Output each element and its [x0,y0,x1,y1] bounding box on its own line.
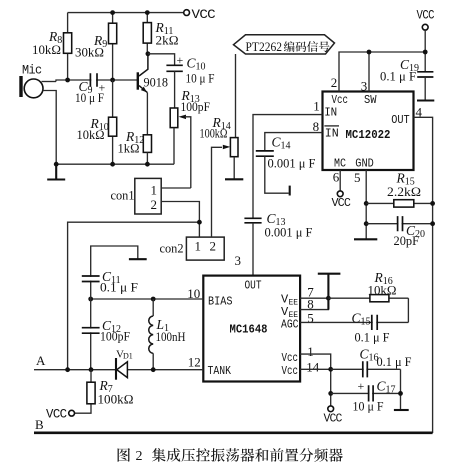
node C20-OUT [430,221,435,226]
node pin14-C16 [328,367,333,372]
wire C16-C17 right leg [400,369,402,409]
power terminal VCC (pin6) [332,191,351,210]
capacitor C10 10uF [166,53,214,86]
svg-text:20pF: 20pF [394,233,420,248]
node B label [35,417,44,432]
node A-trunk [65,367,70,372]
wire pin2 feed [339,52,425,92]
node con2 pin1 junction [197,220,202,225]
wire R12 to ground rail [146,152,148,164]
wire Vcc pin14 [300,368,331,370]
svg-text:A: A [36,353,46,368]
wire C19 to ground [424,77,426,100]
svg-text:BIAS: BIAS [208,294,233,308]
svg-text:VCC: VCC [192,8,216,22]
svg-text:100pF: 100pF [100,329,130,344]
node R15-OUT [430,201,435,206]
arrow R14 wiper [223,145,231,150]
wire R16 right leg [407,298,409,322]
wire GND pin5 down [365,170,367,239]
power terminal VCC (R7) [46,408,75,422]
node A-C12-R7 [89,367,94,372]
wire emitter ground rail [56,163,174,165]
pin 5 label [354,170,361,185]
svg-text:MC: MC [334,157,346,171]
svg-text:Vcc: Vcc [282,351,299,365]
svg-text:100kΩ: 100kΩ [200,126,228,141]
node A label [36,353,46,368]
svg-text:D1: D1 [123,352,133,361]
resistor R15 2.2k [366,171,432,208]
svg-text:14: 14 [306,359,320,374]
pin 1 label (MC1648) [307,344,314,359]
capacitor C9 10uF [75,73,106,105]
svg-text:10kΩ: 10kΩ [32,42,61,57]
svg-text:VCC: VCC [417,9,435,23]
pin 3 label (MC1648) [235,253,242,268]
svg-text:Mic: Mic [22,64,42,78]
ground (C16/C17) [394,409,409,411]
svg-text:0.1 μ F: 0.1 μ F [377,354,412,369]
wire C13 to MC1648 OUT pin3 [252,223,254,276]
resistor R16 10k [328,270,408,302]
svg-text:12: 12 [188,354,201,369]
inductor L1 100nH [149,299,186,370]
capacitor C14 0.001uF [256,135,316,171]
wire C11 top to ground [91,246,138,299]
wire BIAS pin10 [91,298,204,300]
svg-text:5: 5 [354,170,361,185]
microphone Mic [19,64,43,98]
ground (VEE) [318,274,341,310]
wire INB pin8 to C14 [265,133,323,151]
callout PT2262 encoded signal [234,35,335,54]
svg-text:0.1 μ F: 0.1 μ F [100,280,138,295]
node rail-R9 [110,10,115,15]
ground (C19) [417,99,434,101]
svg-text:SW: SW [364,93,377,107]
wire VCC rail [68,12,187,14]
svg-text:IN: IN [324,106,337,120]
wire con1 pin2 [161,202,199,238]
wire node A line [34,369,203,371]
svg-text:1: 1 [151,183,158,198]
ground (pin5) [354,238,377,240]
wire VEE pin7 [300,297,328,299]
ground plate (C14) [289,186,291,196]
svg-text:3: 3 [235,253,242,268]
node A-L1 [151,367,156,372]
wire C9 line [90,79,137,81]
wire IN pin1 to C13 [253,115,323,219]
capacitor C16 0.1uF [331,347,412,378]
capacitor C15 0.1uF on AGC [300,311,408,345]
svg-text:MC12022: MC12022 [346,128,391,142]
ground (R14) [225,178,243,180]
svg-text:VCC: VCC [332,196,351,210]
svg-text:Vcc: Vcc [282,364,299,378]
svg-text:B: B [35,417,44,432]
svg-text:TANK: TANK [208,364,232,378]
svg-text:EE: EE [289,299,299,308]
svg-text:2: 2 [136,449,143,464]
pin 12 label [188,354,201,369]
svg-text:10 μ F: 10 μ F [353,399,384,414]
IC U2 MC1648 [203,276,300,382]
wire C14 to plate ground [265,156,289,193]
node mic-gnd [54,162,59,167]
transistor Q1 9018 [137,54,168,93]
potentiometer R13 100pF [170,88,210,188]
wire Vcc pin1 [300,354,331,406]
wire VEE pin8 [300,298,328,309]
wire R8 branch [67,13,69,80]
svg-text:0.001 μ F: 0.001 μ F [268,156,316,171]
svg-text:3: 3 [361,79,368,94]
svg-text:30kΩ: 30kΩ [75,45,104,60]
svg-text:VCC: VCC [46,408,67,422]
wire emitter to R12 [146,93,148,135]
svg-text:10kΩ: 10kΩ [368,283,397,298]
wire to node A trunk [68,222,200,370]
wire mic output [42,80,91,82]
pin 10 label [187,286,200,301]
svg-text:2.2kΩ: 2.2kΩ [387,184,421,199]
svg-text:VCC: VCC [324,412,343,426]
pin 4 label [416,105,423,120]
wire pin3 feed [368,52,370,92]
svg-text:100kΩ: 100kΩ [98,392,134,407]
connector con2 [160,237,225,260]
svg-text:0.1 μ F: 0.1 μ F [355,330,390,345]
resistor R7 100k [75,370,134,414]
svg-text:con2: con2 [160,241,184,256]
wire R9 branch [112,13,114,80]
capacitor C11 0.1uF [82,269,138,295]
capacitor C20 20pF [366,216,432,248]
node C9-R9R10 [110,78,115,83]
svg-text:100pF: 100pF [181,99,211,114]
svg-text:1kΩ: 1kΩ [118,141,140,156]
pin 3 label [361,79,368,94]
svg-text:IN: IN [325,127,339,141]
pin 8 label [313,119,320,134]
svg-text:0.001 μ F: 0.001 μ F [265,225,313,240]
power terminal VCC (pin1/14) [324,406,343,426]
svg-text:con1: con1 [111,188,135,203]
pin 5 label (MC1648) [307,310,314,325]
resistor R12 [118,129,152,156]
node mic-R8 [65,78,70,83]
svg-text:1: 1 [307,344,314,359]
pin 6 label [333,170,340,185]
power terminal VCC (top-right) [417,9,435,31]
wire collector to C10 [148,54,175,66]
svg-text:10 μ F: 10 μ F [75,90,104,105]
svg-text:6: 6 [333,170,340,185]
connector con1 [111,178,162,214]
node collector-R11-C10 [146,51,151,56]
capacitor C19 0.1uF [380,57,433,84]
pin 8 label (MC1648) [307,296,314,311]
wire mic ground branch [43,91,57,165]
svg-text:0.1 μ F: 0.1 μ F [380,69,416,84]
caption figure 2 [118,448,343,464]
svg-text:2: 2 [331,75,338,90]
pin 2 label [331,75,338,90]
pin 14 label [306,359,320,374]
svg-text:MC1648: MC1648 [230,323,268,337]
wire VCC to C19 [424,30,426,72]
node C17-right [398,391,403,396]
svg-text:10 μ F: 10 μ F [186,71,215,86]
resistor R11 [143,20,178,48]
node BIAS-C11 [88,297,93,302]
svg-text:8: 8 [313,119,320,134]
svg-text:1: 1 [313,99,320,114]
resistor R10 [77,116,117,142]
node BIAS-L1 [151,297,156,302]
IC U1 MC12022 [323,92,414,171]
wire C10 to R13 [174,71,176,108]
wire R14 to ground [233,157,235,179]
node rail-R11 [145,10,150,15]
node R12-gnd [145,162,150,167]
node R10-gnd [110,162,115,167]
wire con1 pin1 to R13 wiper [161,187,191,189]
svg-text:10kΩ: 10kΩ [77,127,105,142]
ground (input stage) [47,164,65,179]
diode VD1 varactor [116,349,133,380]
wire MC pin6 to VCC [339,170,341,191]
capacitor C12 100pF [82,299,130,370]
capacitor C17 10uF [331,379,401,414]
node C17 junction [328,391,333,396]
svg-text:OUT: OUT [391,113,410,127]
node VCC-rail [423,50,428,55]
node pin3-junction [367,50,372,55]
ground (C11) [129,258,147,260]
svg-text:2: 2 [151,197,158,212]
wire banner to R14 [235,54,237,138]
resistor R9 [75,23,117,59]
wire con2 pin2 to R14 wiper [212,147,223,237]
svg-text:2: 2 [210,239,217,254]
svg-text:1: 1 [195,239,202,254]
power terminal VCC (top-left) [184,8,215,22]
svg-text:+: + [358,379,365,393]
pin 1 label [313,99,320,114]
potentiometer R14 100k [200,115,239,157]
svg-text:9018: 9018 [144,75,169,90]
node pin5-C20 [364,221,369,226]
wire node B line [34,431,433,434]
svg-text:AGC: AGC [281,318,299,332]
wire R13 to ground rail [173,128,175,165]
svg-text:OUT: OUT [245,278,262,292]
pin 7 label [307,284,314,299]
wire R11 branch [146,13,148,54]
node pin5-R15 [364,201,369,206]
resistor R8 [32,29,72,57]
capacitor C13 0.001uF [244,211,312,240]
svg-text:PT2262: PT2262 [246,39,283,54]
svg-text:+: + [177,53,184,67]
svg-text:GND: GND [355,157,374,171]
svg-text:100nH: 100nH [156,329,186,344]
node VEE-R16 [326,296,331,301]
wire R10 branch [112,80,114,164]
svg-text:2kΩ: 2kΩ [156,33,179,48]
wire OUT pin4 [414,117,433,433]
